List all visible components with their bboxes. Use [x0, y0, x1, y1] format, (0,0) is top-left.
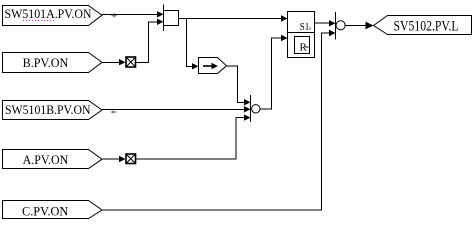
arrowhead into NOT box A: [119, 156, 126, 162]
arrowhead into NOR input 2: [329, 30, 336, 36]
arrowhead into MOVE input: [192, 63, 199, 69]
svg-text:SW5101B.PV.ON: SW5101B.PV.ON: [5, 102, 91, 117]
arrowhead into OR input 1: [244, 99, 251, 105]
arrowhead into flip-flop S input: [281, 15, 288, 21]
wire tag1 to AND input: [102, 14, 158, 16]
output tag SV5102.PV.L: [374, 16, 472, 35]
gray direction marker on wire 3: [110, 110, 116, 113]
flip-flop output wire to NOR input 1: [315, 22, 330, 24]
NOR gate with inversion bubble: [336, 12, 346, 40]
wire tag3 to OR input 2: [102, 108, 244, 110]
arrowhead into OR input 2: [244, 106, 251, 112]
spellcheck underline: [23, 20, 55, 22]
svg-text:R: R: [300, 42, 308, 54]
svg-text:SV5102.PV.L: SV5102.PV.L: [394, 19, 459, 35]
tag SW5101B.PV.ON: [3, 101, 103, 120]
wire tag5 right and up to NOR input 2: [102, 33, 330, 210]
arrowhead into AND input 2: [157, 19, 164, 25]
svg-text:A.PV.ON: A.PV.ON: [23, 152, 69, 167]
OR output wire up to flip-flop R input: [261, 38, 282, 109]
AND gate: [164, 5, 179, 32]
OR gate with inversion bubble: [251, 95, 261, 122]
tag C.PV.ON: [3, 201, 103, 219]
svg-text:SW5101A.PV.ON: SW5101A.PV.ON: [5, 6, 93, 21]
NOT box B (box with X): [126, 57, 136, 67]
tag A.PV.ON: [3, 150, 103, 169]
wire NOT-A right and up to OR input 3: [136, 118, 236, 159]
arrowhead into NOT box B: [119, 59, 126, 65]
output wire to output tag: [345, 25, 366, 27]
arrowhead into flip-flop R input: [281, 35, 288, 41]
svg-text:C.PV.ON: C.PV.ON: [22, 204, 69, 219]
arrowhead into OR input 3: [244, 114, 251, 120]
MOVE block (pentagon with arrow): [199, 58, 227, 74]
wire from A riser into OR input 3: [236, 117, 245, 119]
arrowhead into output tag: [366, 22, 374, 30]
svg-text:B.PV.ON: B.PV.ON: [23, 55, 69, 70]
wire NOT-B up to AND input 2: [136, 22, 158, 63]
wire AND output to flip-flop S input: [179, 18, 282, 20]
gray direction marker on wire 1: [111, 13, 117, 18]
junction riser down to MOVE block: [187, 19, 193, 67]
tag SW5101A.PV.ON: [3, 6, 103, 26]
tag B.PV.ON: [3, 53, 103, 73]
arrowhead into NOR input 1: [329, 20, 336, 26]
wire tag2 to NOT box: [102, 61, 120, 63]
svg-text:S1: S1: [300, 22, 310, 33]
arrowhead into AND input 1: [157, 11, 164, 17]
flip-flop SR block: [288, 12, 315, 58]
wire tag4 to NOT box A: [102, 158, 120, 160]
NOT box A (box with X): [126, 154, 136, 164]
wire MOVE output down to OR input 1: [227, 66, 245, 102]
